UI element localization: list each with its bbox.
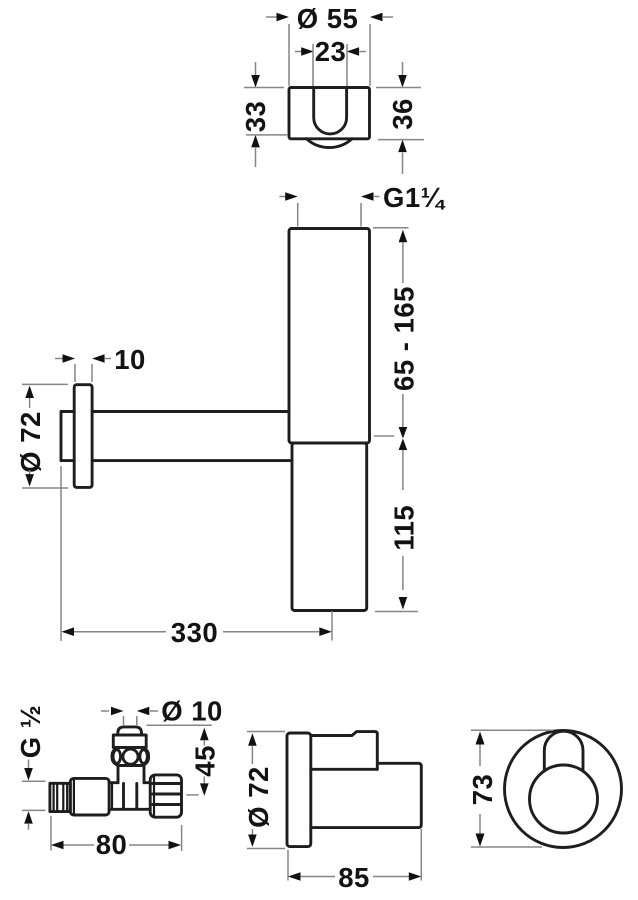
bracket bottom bulge [307,139,353,148]
svg-text:45: 45 [190,745,221,777]
dimension 65-165 line upper [402,242,404,283]
dimension 23 left arrow [301,47,314,56]
dimension 45 top arrow [200,728,209,741]
svg-text:330: 330 [171,617,218,648]
dimension Ø72 top extension [22,383,68,385]
dimension G1/2 top arrow [24,768,33,781]
dimension 45 line upper [203,740,205,745]
dimension 330 line left [74,631,166,633]
dimension 80 left arrow [51,841,64,850]
dimension 73 top arrow [476,732,485,745]
dimension Ø10 left leader [101,710,109,712]
valve nut ridge 2 [153,793,181,796]
valve thread line 2 [56,785,58,810]
dimension 80 right arrow [169,841,182,850]
valve bonnet right lobe [140,750,148,764]
SECTION-TOP-BRACKET [240,3,424,174]
dimension 45 top extension [147,724,212,726]
dimension 80 left extension [50,816,52,851]
valve nut ridge 3 [153,803,181,806]
dimension Ø72 bottom arrow [248,835,257,848]
hourglass extension dash [374,435,394,437]
svg-text:85: 85 [338,862,370,893]
valve tee bottom edge [109,808,150,811]
valve knurled nut [150,775,181,817]
extension line 36 bottom [378,139,424,141]
dimension 85 left extension [287,850,289,881]
valve threaded end G1/2 [50,783,70,811]
dimension 115 bottom extension [375,611,418,613]
SECTION-ELBOW-FRONT [467,730,622,847]
dimension Ø72 line upper [251,746,253,764]
dimension 10 right leader [105,358,111,360]
dimension Ø10 right arrow [137,707,150,716]
dimension G1/2 bottom extension dash [22,809,46,811]
dimension Ø72 line upper stub [29,398,31,408]
dimension Ø10 right leader [150,710,158,712]
dimension G1/2 bottom arrow [24,811,33,824]
extension line 10 left [74,364,76,382]
svg-text:Ø 10: Ø 10 [161,696,223,727]
extension line 23 left [312,44,314,86]
svg-text:73: 73 [467,774,498,806]
svg-text:36: 36 [387,98,418,130]
dimension 45 bottom arrow [200,783,209,796]
valve thread line 1 [52,785,54,810]
valve stem left line [117,766,120,783]
dimension 36 bottom arrow [398,140,407,153]
dimension Ø72 bottom arrow [25,474,34,487]
dimension 330 right extension [331,611,333,641]
dimension G1/2 top extension dash [22,780,46,782]
dimension 80 right extension [181,825,183,851]
elbow escutcheon outer circle (front view) [505,731,622,848]
dimension 65-165 top extension [373,227,409,229]
valve outlet pipe line left [122,784,125,809]
valve tee top edge left [109,781,118,784]
svg-text:G ½: G ½ [15,705,46,758]
dimension 10 right arrow [92,354,105,363]
dimension Ø55 right arrow [370,13,383,22]
dimension 330 right arrow [319,627,332,636]
bracket U-shaped cutout [314,88,347,134]
svg-text:Ø 55: Ø 55 [297,3,359,34]
svg-text:10: 10 [114,344,146,375]
valve handle cap [118,727,142,735]
dimension 73 bottom extension [471,846,542,848]
elbow inner circle [530,765,598,833]
dimension 330 line right [223,631,319,633]
svg-text:Ø 72: Ø 72 [243,766,274,828]
elbow vertical pipe slot [544,731,583,771]
elbow wall flange (side view) [287,733,311,847]
svg-text:80: 80 [96,829,128,860]
dimension 73 line lower [479,814,481,834]
valve tee top edge right [144,781,150,784]
svg-text:23: 23 [315,36,347,67]
dimension Ø10 left arrow [111,707,124,716]
dimension 23 right leader [360,51,367,53]
elbow body outline [311,732,422,828]
valve outlet pipe line right [135,784,138,809]
dimension 85 left arrow [288,872,301,881]
dimension 33 line bottom stub [255,148,257,167]
valve main body [70,778,109,815]
dimension 115 line upper [402,450,404,490]
dimension 45 line lower [203,777,205,784]
svg-text:65 - 165: 65 - 165 [389,286,420,391]
elbow inlet tube bottom line [311,768,378,771]
trap wall flange [74,385,92,488]
dimension 85 right extension [420,829,422,881]
dimension 85 line right [373,876,409,878]
dimension 33 bottom arrow [251,135,260,148]
dimension 330 left arrow [62,627,75,636]
dimension Ø72 top arrow [25,386,34,399]
dimension Ø55 left arrow [277,13,290,22]
dimension 85 line left [301,876,336,878]
svg-text:115: 115 [389,505,420,551]
wall bracket body outline [289,88,370,139]
dimension Ø55 left leader [266,16,277,18]
trap lower vertical tube [292,443,367,611]
valve bonnet ring [112,747,149,765]
dimension G1¼ right arrow [361,192,374,201]
dimension 65-165 top arrow [399,230,408,243]
SECTION-TRAP [15,182,446,648]
dimension 115 bottom arrow [399,597,408,610]
extension line Ø10 right [136,716,138,726]
extension line Ø55 left [288,24,290,86]
dimension Ø72 bottom extension [247,848,285,850]
extension line G1¼ right [360,203,362,227]
extension line Ø55 right [369,24,371,86]
dimension 115 line lower [402,556,404,590]
dimension 23 left leader [295,51,302,53]
trap upper vertical tube [289,229,370,444]
extension line 23 right [346,44,348,86]
SECTION-ELBOW-SIDE [243,732,421,894]
dimension G1¼ left arrow [285,192,298,201]
dimension 36 line bottom stub [402,153,404,174]
dimension 10 left arrow [63,354,76,363]
valve thread line 3 (thick) [62,785,64,811]
svg-text:G1¼: G1¼ [383,182,446,213]
dimension 36 top arrow [398,75,407,88]
trap horizontal tube top edge [92,410,289,413]
dimension 80 line right [129,844,169,846]
valve tee junction line [111,784,113,809]
valve thread line 4 [66,785,68,810]
dimension 73 top extension [471,729,553,731]
valve bonnet left lobe [113,750,121,764]
dimension 33 line top stub [255,62,257,76]
valve handle band [113,735,146,747]
dimension Ø72 line lower stub [29,470,31,476]
valve nut ridge 1 [153,782,181,785]
dimension G1¼ right leader [374,196,380,198]
valve bonnet center circle [123,749,138,764]
dimension G1/2 line upper stub [28,760,30,769]
dimension Ø72 bottom extension [22,487,68,489]
dimension 23 right arrow [347,47,360,56]
dimension 73 line upper [479,745,481,767]
extension line Ø10 left [123,716,125,726]
trap wall stub tube [61,412,74,461]
dimension 85 right arrow [409,872,422,881]
dimension 65-165 line lower [402,394,404,427]
dimension Ø72 top extension [247,731,285,733]
dimension 33 top arrow [251,75,260,88]
extension line G1¼ left [297,203,299,227]
trap horizontal tube bottom edge [92,459,292,462]
valve stem right line [143,766,146,783]
dimension 115 top arrow (hourglass bottom) [399,439,408,451]
valve nut inner edge [153,777,155,816]
extension line 33 bottom [246,134,288,136]
dimension G1/2 line lower stub [28,824,30,830]
extension line 10 right [91,364,93,382]
dimension Ø72 line lower [251,829,253,835]
dimension 65-165 bottom arrow (hourglass top) [399,427,408,439]
dimension 45 bottom extension dash [186,794,198,796]
dimension 36 line top stub [402,62,404,76]
dimension 73 bottom arrow [476,834,485,847]
SECTION-VALVE [15,696,223,861]
valve body inner chamfer line [73,780,75,814]
svg-text:33: 33 [240,101,271,133]
dimension 80 line left [64,844,95,846]
svg-text:Ø 72: Ø 72 [15,411,46,473]
elbow tube step line [376,763,379,769]
extension line 36 top [376,87,421,89]
dimension Ø55 right leader [383,16,393,18]
dimension 330 left extension [60,466,62,641]
dimension Ø72 top arrow [248,733,257,746]
dimension 10 left leader [55,358,63,360]
extension line 33 top [244,87,284,89]
dimension G1¼ left leader [279,196,286,198]
